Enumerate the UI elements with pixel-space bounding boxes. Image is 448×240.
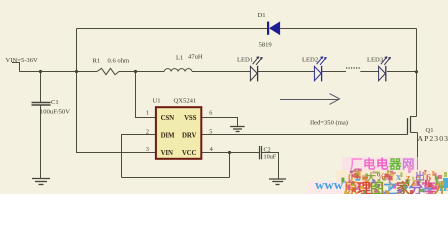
svg-text:CSN: CSN <box>161 115 175 122</box>
svg-text:LED2: LED2 <box>302 57 318 64</box>
svg-text:10uF: 10uF <box>264 154 277 161</box>
svg-text:C1: C1 <box>51 99 59 106</box>
svg-text:100uF/50V: 100uF/50V <box>40 109 70 116</box>
svg-text:VSS: VSS <box>184 115 197 122</box>
svg-text:器: 器 <box>388 158 402 172</box>
svg-text:LED1: LED1 <box>237 57 253 64</box>
svg-text:x: x <box>396 172 401 183</box>
svg-text:电: 电 <box>363 157 376 172</box>
svg-text:6: 6 <box>209 110 212 117</box>
svg-text:Q1: Q1 <box>426 127 434 134</box>
svg-text:QX5241: QX5241 <box>174 98 197 105</box>
svg-text:R1: R1 <box>93 57 101 64</box>
svg-text:LED3: LED3 <box>367 57 384 64</box>
svg-text:5: 5 <box>209 129 212 136</box>
svg-text:VIN=5-36V: VIN=5-36V <box>6 57 39 64</box>
svg-text:1: 1 <box>146 110 149 117</box>
svg-text:DIM: DIM <box>161 132 175 139</box>
svg-text:4: 4 <box>210 146 213 153</box>
svg-text:电: 电 <box>376 157 389 172</box>
svg-text:3: 3 <box>146 146 149 153</box>
svg-text:5819: 5819 <box>259 42 273 49</box>
svg-text:Iled=350 (ma): Iled=350 (ma) <box>310 120 348 127</box>
svg-text:VIN: VIN <box>161 150 173 157</box>
svg-text:VCC: VCC <box>182 150 197 157</box>
svg-text:2: 2 <box>146 129 149 136</box>
svg-text:0.6 ohm: 0.6 ohm <box>108 57 130 64</box>
svg-text:www: www <box>315 177 344 192</box>
svg-text:DRV: DRV <box>182 132 196 139</box>
svg-text:L1: L1 <box>176 55 183 62</box>
svg-text:U1: U1 <box>153 98 161 105</box>
svg-text:D1: D1 <box>258 12 266 19</box>
svg-text:AP2303: AP2303 <box>418 134 448 143</box>
svg-text:47uH: 47uH <box>188 54 203 61</box>
svg-text:C2: C2 <box>264 147 271 154</box>
